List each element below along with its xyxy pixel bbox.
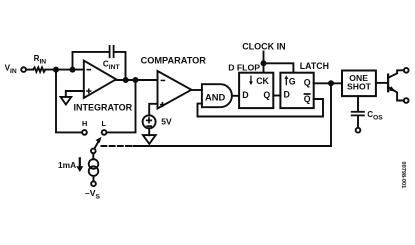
wire integrator output line [116, 79, 157, 81]
svg-text:H: H [82, 119, 87, 128]
arrowhead switch arm [96, 137, 102, 143]
svg-text:00798-001: 00798-001 [400, 162, 406, 189]
wire feedback up and to CINT [73, 52, 109, 70]
svg-text:G: G [289, 77, 296, 87]
symbol plus 5V [146, 120, 152, 122]
capacitor CINT [109, 46, 111, 57]
arrowhead 1mA [76, 166, 83, 172]
svg-text:AND: AND [205, 91, 226, 102]
wire one shot to transistor base [376, 82, 388, 84]
wire output down to L switch [107, 80, 136, 132]
op-amp U2 comparator triangle [158, 71, 192, 109]
svg-text:1mA: 1mA [58, 160, 76, 170]
svg-text:5V: 5V [161, 117, 172, 127]
svg-text:Q: Q [304, 77, 311, 87]
wire AND lower input feedback [198, 99, 324, 117]
capacitor COS [352, 111, 364, 113]
symbol minus comparator [161, 80, 166, 82]
node clock junction [261, 61, 265, 65]
wire Q down to switch control [133, 83, 331, 146]
transistor collector [388, 70, 404, 78]
source 1mA circles [89, 159, 99, 169]
node -VS terminal [91, 181, 96, 186]
svg-text:Q: Q [304, 94, 311, 104]
wire comparator + to 5V [149, 104, 157, 116]
node feedback junction [70, 68, 74, 72]
ground integrator [61, 97, 72, 105]
svg-text:D: D [242, 90, 248, 100]
svg-text:CINT: CINT [103, 59, 121, 71]
svg-text:CK: CK [256, 76, 269, 86]
arrow CK down [250, 76, 251, 82]
node COS terminal [356, 128, 361, 133]
wire 5V to ground [148, 128, 150, 135]
gate AND body [202, 84, 232, 107]
node CINT output junction [124, 78, 128, 82]
symbol minus integrator [87, 69, 92, 71]
node switch H terminal [82, 130, 87, 135]
symbol plus comparator [160, 104, 165, 106]
node switch line junction [133, 78, 137, 82]
flip-flop U3 D FLOP box [239, 73, 273, 108]
symbol minus 5V [146, 125, 152, 127]
op-amp U1 integrator triangle [84, 61, 116, 98]
latch U4 box [280, 73, 313, 108]
wire switch arm [94, 140, 99, 148]
wire VIN to resistor [26, 69, 33, 71]
svg-text:COS: COS [367, 110, 383, 121]
svg-text:–VS: –VS [85, 188, 101, 200]
arrow G up [286, 79, 287, 86]
svg-text:D FLOP: D FLOP [228, 63, 260, 73]
wire latch Q to one shot [314, 82, 342, 84]
wire D flop Q to latch D [274, 95, 281, 97]
ground 5V [143, 135, 156, 144]
wire COS to terminal [357, 116, 359, 128]
svg-text:RIN: RIN [34, 54, 47, 66]
symbol plus integrator [86, 90, 91, 92]
arrowhead emitter [389, 86, 395, 91]
wire resistor to integrator [45, 69, 84, 71]
wire clock to latch G [264, 63, 294, 72]
transistor Q1 base bar [387, 75, 389, 92]
node switch L terminal [102, 130, 107, 135]
wire CLOCK IN drop [263, 52, 265, 73]
wire pivot to current source [92, 153, 94, 159]
node Q output junction [329, 81, 333, 85]
svg-text:LATCH: LATCH [300, 61, 329, 71]
wire input down to H switch [56, 70, 82, 133]
wire one shot to COS [357, 96, 359, 111]
svg-text:D: D [284, 90, 290, 100]
node switch pivot [91, 149, 96, 154]
wire AND output to D flop [232, 95, 239, 97]
resistor RIN [33, 67, 45, 72]
wire current source to -VS [93, 176, 95, 181]
node emitter terminal [404, 98, 409, 103]
wire 1mA arrow shaft [79, 158, 81, 167]
svg-text:VIN: VIN [5, 63, 17, 75]
svg-text:CLOCK IN: CLOCK IN [242, 41, 286, 51]
svg-text:Q: Q [263, 90, 270, 100]
svg-text:SHOT: SHOT [347, 81, 372, 91]
wire CINT to output [115, 52, 126, 80]
node input junction [54, 68, 58, 72]
source 5V circle [143, 115, 156, 128]
svg-text:INTEGRATOR: INTEGRATOR [74, 103, 133, 113]
wire integrator + input [66, 91, 84, 97]
wire dashed switch control [101, 145, 132, 147]
svg-text:COMPARATOR: COMPARATOR [141, 56, 207, 66]
node VIN terminal [21, 67, 26, 72]
svg-text:L: L [102, 119, 107, 128]
node collector terminal [404, 68, 409, 73]
wire comparator output to AND [191, 89, 202, 91]
transistor emitter [388, 87, 404, 101]
box ONE SHOT [342, 71, 376, 97]
